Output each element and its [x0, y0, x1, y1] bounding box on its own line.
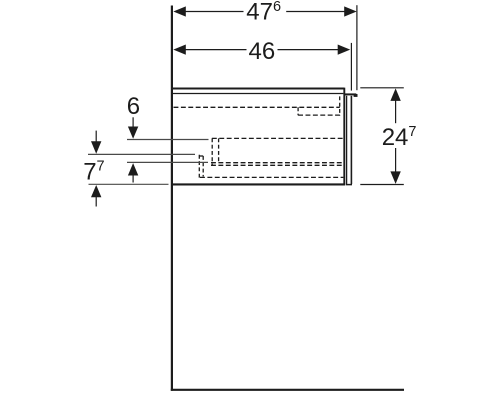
arrow 24.7 up — [390, 88, 400, 101]
carcass front face — [343, 88, 345, 186]
extension line 47.6 — [356, 5, 358, 90]
drawer top edge reference line — [127, 139, 209, 141]
arrow 7.7 up — [91, 185, 101, 197]
upper drawer front outer vertical (dashed) — [211, 138, 213, 165]
lower drawer front top step (dashed) — [199, 155, 204, 157]
carcass bottom — [173, 183, 345, 185]
dimension 7.7 stem lower — [95, 197, 97, 207]
drawer front panel inner face — [346, 96, 348, 184]
washbasin front lip — [344, 93, 356, 95]
dimension line 46 right segment — [278, 49, 340, 51]
arrow 24.7 down — [390, 171, 400, 184]
svg-text:6: 6 — [127, 93, 140, 120]
arrow 46 right — [338, 45, 351, 55]
svg-text:46: 46 — [249, 38, 276, 65]
svg-text:247: 247 — [382, 124, 417, 151]
svg-text:476: 476 — [246, 0, 281, 26]
hidden drawer inner front vertical (dashed) — [339, 96, 341, 115]
arrow 46 left — [173, 45, 186, 55]
upper drawer bottom top face (dashed) — [211, 162, 343, 164]
drawer bottom edge reference line — [127, 161, 208, 163]
lower drawer front inner vertical (dashed) — [202, 156, 204, 177]
dimension line 46 left segment — [184, 49, 247, 51]
upper drawer front inner vertical (dashed) — [218, 138, 220, 162]
dimension 6 stem lower — [132, 175, 134, 183]
dimension line 24.7 lower segment — [395, 148, 397, 173]
drawer front panel bottom edge — [346, 184, 352, 186]
arrow 47.6 right — [344, 6, 357, 16]
hidden recess step vertical (dashed) — [297, 107, 299, 115]
arrow 6 down — [128, 127, 138, 139]
dimension line 47.6 left segment — [184, 11, 244, 13]
lower drawer front outer vertical (dashed) — [198, 155, 200, 178]
wall — [171, 6, 173, 391]
washbasin lip downturn — [354, 94, 358, 97]
drawer front panel outer face — [350, 96, 352, 184]
washbasin top surface — [173, 88, 344, 90]
extension line 24.7 bottom — [360, 184, 404, 186]
extension line 24.7 top — [360, 87, 404, 89]
hidden recess bottom (dashed) — [298, 114, 340, 116]
dimension 7.7 stem upper — [95, 131, 97, 144]
svg-text:77: 77 — [83, 159, 104, 186]
bottom edge reference line — [89, 183, 169, 185]
washbasin underside — [173, 93, 343, 95]
lower drawer bottom (dashed) — [200, 176, 343, 178]
arrow 7.7 down — [91, 141, 101, 153]
dimension line 24.7 upper segment — [395, 99, 397, 123]
extension line 46 — [350, 43, 352, 91]
upper drawer bottom lower face (dashed) — [211, 164, 343, 166]
arrow 6 up — [128, 163, 138, 175]
hidden basin underside (dashed) — [174, 106, 340, 108]
floor — [171, 389, 404, 391]
upper drawer top (dashed) — [212, 137, 344, 139]
arrow 47.6 left — [173, 6, 186, 16]
dimension line 47.6 right segment — [286, 11, 346, 13]
dimension 6 stem upper — [132, 117, 134, 128]
recess top reference line — [88, 153, 195, 155]
